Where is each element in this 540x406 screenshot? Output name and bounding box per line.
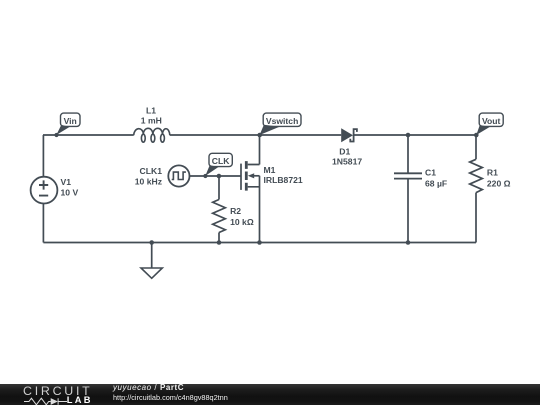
svg-text:Vin: Vin	[64, 116, 77, 126]
svg-text:D1: D1	[339, 146, 350, 156]
svg-text:CLK1: CLK1	[140, 166, 163, 176]
svg-text:R1: R1	[487, 167, 498, 177]
svg-text:10 V: 10 V	[61, 187, 79, 197]
svg-text:1N5817: 1N5817	[332, 156, 362, 166]
svg-text:IRLB8721: IRLB8721	[264, 175, 303, 185]
svg-text:CLK: CLK	[212, 156, 230, 166]
svg-text:M1: M1	[264, 165, 276, 175]
svg-text:220 Ω: 220 Ω	[487, 178, 511, 188]
svg-text:10 kHz: 10 kHz	[135, 176, 162, 186]
svg-text:L1: L1	[146, 106, 156, 116]
svg-text:68 µF: 68 µF	[425, 179, 447, 189]
svg-text:Vout: Vout	[482, 116, 501, 126]
svg-text:10 kΩ: 10 kΩ	[230, 217, 254, 227]
svg-text:V1: V1	[61, 177, 72, 187]
svg-text:R2: R2	[230, 206, 241, 216]
svg-text:1 mH: 1 mH	[141, 115, 162, 125]
svg-text:C1: C1	[425, 168, 436, 178]
svg-text:Vswitch: Vswitch	[266, 116, 298, 126]
